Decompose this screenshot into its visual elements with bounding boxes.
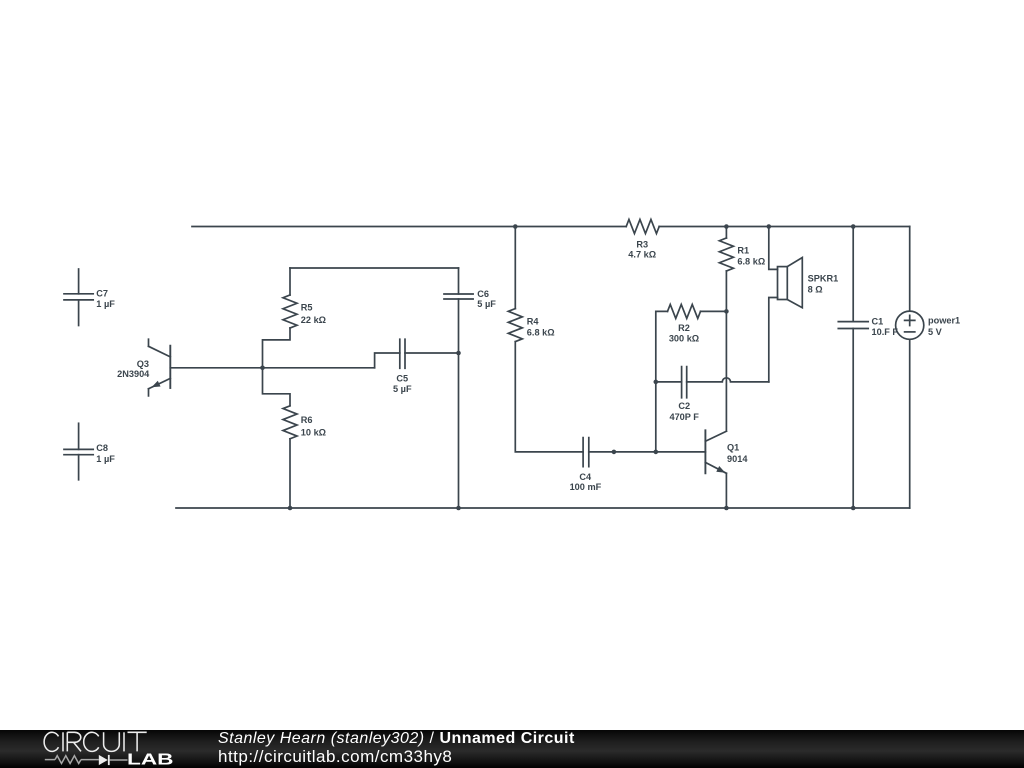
- wire R4 bottom to C4: [515, 342, 583, 452]
- wire C4 to Q1 base: [589, 451, 706, 453]
- resistor R6: [283, 406, 297, 439]
- capacitor C4: [583, 438, 589, 467]
- node bottom rail / C6: [456, 506, 461, 511]
- svg-text:10 kΩ: 10 kΩ: [301, 428, 326, 438]
- capacitor C8: [64, 423, 93, 480]
- wire Q3 base rail: [170, 367, 374, 369]
- node top rail / R1: [724, 224, 729, 229]
- svg-text:5 µF: 5 µF: [393, 384, 412, 394]
- svg-text:9014: 9014: [727, 454, 748, 464]
- transistor Q3: [149, 339, 171, 396]
- wire R6 bottom lead: [289, 439, 291, 508]
- footer text: [218, 730, 575, 748]
- wire Q1 emitter to bottom rail: [725, 473, 727, 508]
- svg-text:100 mF: 100 mF: [570, 482, 602, 492]
- node Q3 base junction: [260, 366, 265, 371]
- wire power branch bottom: [909, 339, 911, 508]
- wire C1 branch bottom: [852, 329, 854, 509]
- svg-text:300 kΩ: 300 kΩ: [669, 334, 699, 344]
- wire speaker bottom terminal: [769, 298, 778, 382]
- svg-text:SPKR1: SPKR1: [808, 273, 839, 283]
- wire power branch top: [909, 227, 911, 312]
- svg-text:5 V: 5 V: [928, 327, 943, 337]
- svg-text:C8: C8: [96, 443, 108, 453]
- wire C1 branch top: [852, 227, 854, 322]
- node C5 / C6 branch: [456, 351, 461, 356]
- svg-text:C6: C6: [477, 289, 489, 299]
- node bottom rail / C1: [851, 506, 856, 511]
- node C4 wire a: [612, 450, 617, 455]
- capacitor C2: [682, 367, 687, 398]
- capacitor C6: [444, 294, 473, 299]
- capacitor C1: [838, 322, 868, 329]
- wire R5 top lead: [289, 268, 291, 295]
- svg-text:C2: C2: [678, 401, 690, 411]
- svg-text:4.7 kΩ: 4.7 kΩ: [628, 250, 656, 260]
- capacitor C5: [400, 339, 405, 368]
- wire bottom rail: [176, 507, 910, 509]
- svg-text:R6: R6: [301, 415, 313, 425]
- capacitor C7: [64, 269, 93, 326]
- svg-text:R1: R1: [737, 246, 749, 256]
- svg-text:R3: R3: [636, 240, 648, 250]
- wire top rail right: [659, 226, 910, 228]
- svg-text:1 µF: 1 µF: [96, 454, 115, 464]
- resistor R5: [283, 295, 297, 328]
- svg-text:power1: power1: [928, 315, 960, 325]
- transistor Q1: [705, 430, 726, 473]
- node top rail / C1: [851, 224, 856, 229]
- svg-text:2N3904: 2N3904: [117, 369, 150, 379]
- resistor R1: [719, 238, 733, 271]
- node top rail / R4: [513, 224, 518, 229]
- node bottom rail / Q1 emitter: [724, 506, 729, 511]
- resistor R3: [626, 220, 659, 234]
- wire R2 right lead: [701, 310, 727, 312]
- wire C6 bottom branch: [458, 299, 460, 508]
- wire top rail left: [192, 226, 626, 228]
- wire inner top rail: [290, 267, 459, 269]
- svg-text:Q3: Q3: [137, 359, 149, 369]
- svg-text:C5: C5: [396, 373, 408, 383]
- wire C5 right lead: [405, 352, 459, 354]
- svg-text:R2: R2: [678, 323, 690, 333]
- svg-text:5 µF: 5 µF: [477, 299, 496, 309]
- svg-text:22 kΩ: 22 kΩ: [301, 315, 326, 325]
- wire C5 left step: [375, 353, 400, 368]
- wire C6 top lead: [458, 268, 460, 294]
- svg-text:6.8 kΩ: 6.8 kΩ: [737, 257, 765, 267]
- svg-text:R5: R5: [301, 303, 313, 313]
- voltage source power1: [896, 311, 924, 339]
- svg-text:470P F: 470P F: [669, 412, 699, 422]
- wire C2 left lead: [656, 381, 682, 383]
- footer bar: [0, 730, 1024, 768]
- svg-text:C1: C1: [872, 316, 884, 326]
- resistor R2: [668, 304, 701, 318]
- svg-text:LAB: LAB: [127, 751, 174, 767]
- node C4 wire b: [654, 450, 659, 455]
- svg-text:Q1: Q1: [727, 443, 739, 453]
- node top rail / speaker: [767, 224, 772, 229]
- svg-text:C7: C7: [96, 288, 108, 298]
- svg-text:8 Ω: 8 Ω: [808, 284, 823, 294]
- wire R4 top lead: [514, 227, 516, 309]
- wire R1 top lead: [725, 227, 727, 239]
- svg-text:10.F F: 10.F F: [872, 327, 899, 337]
- resistor R4: [508, 309, 522, 342]
- node R1 / R2: [724, 309, 729, 314]
- speaker SPKR1: [778, 258, 803, 308]
- wire R5 bottom jog: [263, 328, 291, 368]
- wire speaker top terminal: [769, 227, 778, 270]
- svg-text:C4: C4: [579, 472, 592, 482]
- wire R1 bottom to Q1 collector: [725, 271, 727, 431]
- wire R2 left lead down: [656, 311, 668, 452]
- node R2 / C2: [654, 380, 659, 385]
- wire R6 top jog: [263, 368, 291, 406]
- node bottom rail / R6: [288, 506, 293, 511]
- CircuitLab logo: [0, 730, 200, 768]
- svg-text:6.8 kΩ: 6.8 kΩ: [527, 328, 555, 338]
- svg-text:1 µF: 1 µF: [96, 299, 115, 309]
- svg-text:R4: R4: [527, 316, 540, 326]
- wire C2 right with hop: [687, 378, 769, 382]
